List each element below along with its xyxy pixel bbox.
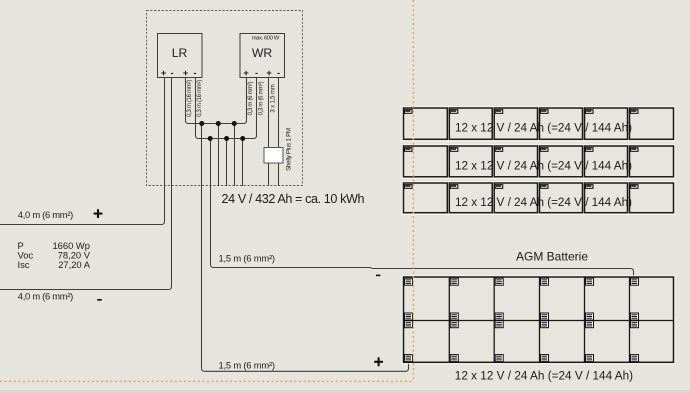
orange marquee horizontal line [0, 380, 413, 382]
label 4,0 m (6 mm2) plus run [18, 209, 74, 220]
cable label 0,3 m (16 mm2) wire 2 [197, 80, 203, 117]
svg-text:WR: WR [252, 46, 273, 60]
label 1,5 m (6 mm2) plus run [219, 360, 276, 371]
svg-text:12 x 12 V / 24 Ah (=24 V / 144: 12 x 12 V / 24 Ah (=24 V / 144 Ah) [455, 159, 632, 172]
wire minus bus stub 3 [242, 139, 244, 187]
WR terminal labels [243, 68, 280, 78]
inverter WR [240, 34, 285, 78]
svg-text:12 x 12 V / 24 Ah (=24 V / 144: 12 x 12 V / 24 Ah (=24 V / 144 Ah) [455, 196, 632, 209]
enclosure dashed box [147, 11, 303, 186]
svg-text:3 x 1,5 mm: 3 x 1,5 mm [271, 84, 277, 112]
taskbar strip [0, 390, 690, 393]
label AGM Batterie [516, 250, 588, 264]
AGM bank terminal tabs middle upper row [405, 313, 639, 320]
wire minus bus LR to WR [196, 78, 257, 139]
battery group row 1 [402, 106, 676, 142]
junction dot plus bus 3 [232, 121, 237, 126]
label 4,0 m (6 mm2) minus run [18, 290, 74, 301]
svg-text:4,0 m (6 mm²): 4,0 m (6 mm²) [18, 290, 74, 301]
plus sign PV wire [94, 209, 103, 218]
svg-text:Shelly Plus 1 PM: Shelly Plus 1 PM [285, 128, 292, 171]
AGM bank terminal tabs middle lower row [405, 321, 639, 328]
wire PV plus from LR to panel (4,0 m) [0, 78, 165, 225]
wire plus bus stub 2 [218, 124, 220, 187]
charge controller LR [158, 34, 203, 78]
svg-text:0,3 m (6 mm²): 0,3 m (6 mm²) [258, 81, 264, 115]
smart meter Shelly Plus 1 PM [264, 148, 283, 164]
svg-text:AGM Batterie: AGM Batterie [516, 250, 588, 264]
svg-text:Isc: Isc [18, 259, 30, 270]
svg-text:12 x 12 V / 24 Ah (=24 V / 144: 12 x 12 V / 24 Ah (=24 V / 144 Ah) [455, 121, 632, 134]
svg-text:24 V / 432 Ah = ca. 10 kWh: 24 V / 432 Ah = ca. 10 kWh [222, 192, 365, 206]
svg-text:max. 600 W: max. 600 W [252, 36, 280, 42]
AGM bank terminal tabs top row [405, 278, 639, 285]
junction dot minus bus 1 [208, 136, 213, 141]
svg-text:-: - [170, 68, 173, 78]
minus sign battery wire [376, 275, 380, 277]
cable label 0,3 m (6 mm2) wire 3 [248, 81, 254, 115]
label 1,5 m (6 mm2) minus run [219, 252, 276, 263]
battery group row 3 [402, 181, 676, 215]
junction dot minus bus 3 [240, 136, 245, 141]
svg-text:1,5 m (6 mm²): 1,5 m (6 mm²) [219, 360, 276, 371]
svg-text:0,3 m (16 mm²): 0,3 m (16 mm²) [197, 80, 203, 117]
svg-text:12 x 12 V / 24 Ah (=24 V / 144: 12 x 12 V / 24 Ah (=24 V / 144 Ah) [455, 370, 633, 383]
svg-text:LR: LR [172, 46, 188, 60]
cable label 0,3 m (6 mm2) wire 4 [258, 81, 264, 115]
AGM bank terminal tabs bottom row [405, 355, 639, 362]
wire WR AC line through Shelly [268, 78, 270, 186]
wire plus bus stub 3 [234, 124, 236, 187]
label Shelly Plus 1 PM [285, 128, 292, 171]
AGM battery bank [402, 275, 676, 365]
wire plus bus LR to WR [186, 78, 247, 124]
svg-text:+: + [266, 68, 271, 78]
wire PV minus from LR to panel (4,0 m) [0, 78, 172, 290]
wire battery plus (1,5 m) from plus bus to AGM bank [202, 124, 409, 372]
minus sign PV wire [97, 299, 102, 301]
svg-text:+: + [183, 68, 188, 78]
junction dot plus bus 1 [199, 121, 204, 126]
label battery capacity total [222, 192, 365, 206]
PV data table [18, 240, 91, 270]
orange marquee vertical line [412, 0, 414, 381]
svg-text:4,0 m (6 mm²): 4,0 m (6 mm²) [18, 209, 74, 220]
cable label 0,3 m (16 mm2) wire 1 [187, 80, 193, 117]
cable label 3 x 1,5 mm [271, 84, 277, 112]
svg-text:27,20 A: 27,20 A [58, 259, 91, 270]
svg-text:-: - [277, 68, 280, 78]
svg-text:0,3 m (16 mm²): 0,3 m (16 mm²) [187, 80, 193, 117]
svg-text:+: + [243, 68, 248, 78]
svg-text:1,5 m (6 mm²): 1,5 m (6 mm²) [219, 252, 276, 263]
label AGM bank capacity [455, 370, 633, 383]
plus sign battery wire [374, 357, 383, 366]
LR terminal labels [161, 68, 197, 78]
svg-text:-: - [193, 68, 196, 78]
wire WR AC neutral [278, 78, 280, 186]
svg-text:0,3 m (6 mm²): 0,3 m (6 mm²) [248, 81, 254, 115]
junction dot plus bus 2 [216, 121, 221, 126]
battery group row 2 [402, 144, 676, 179]
svg-text:-: - [255, 68, 258, 78]
wire battery minus (1,5 m) from minus bus to AGM bank [211, 139, 634, 278]
wire minus bus stub 2 [226, 139, 228, 187]
junction dot minus bus 2 [224, 136, 229, 141]
svg-text:+: + [161, 68, 166, 78]
